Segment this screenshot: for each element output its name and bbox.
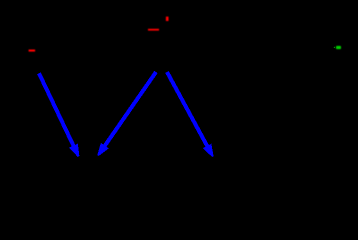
green mark right	[334, 46, 341, 49]
red tick top-center	[166, 17, 169, 21]
arrow B (blue, top-center to bottom-left)	[97, 72, 156, 156]
arrow A (blue, top-left to bottom)	[39, 73, 79, 157]
arrow C (blue, top-center to bottom-right)	[167, 72, 214, 157]
charge minus left (red)	[29, 50, 35, 52]
charge minus top-center (red)	[148, 29, 159, 31]
